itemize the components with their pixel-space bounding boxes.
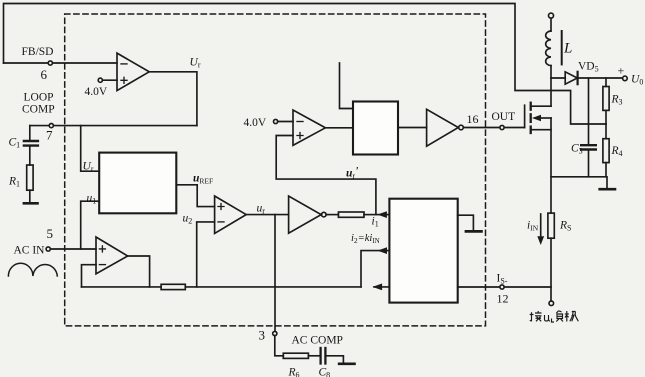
node pin 5 terminal <box>46 247 50 251</box>
svg-text:RS: RS <box>559 220 571 233</box>
wire pin3 vertical from ue line to AC COMP <box>274 215 276 332</box>
wire Is- pin 12 <box>458 286 551 288</box>
svg-text:+: + <box>618 64 625 78</box>
svg-text:R3: R3 <box>611 94 623 107</box>
dashed IC boundary box <box>65 14 486 326</box>
svg-text:L: L <box>563 41 572 57</box>
svg-text:AC IN: AC IN <box>14 245 46 257</box>
Q1 source stub <box>532 129 551 131</box>
glyph u with L subscript <box>545 315 551 321</box>
wire logic block to driver <box>398 127 427 129</box>
svg-text:OUT: OUT <box>492 111 516 123</box>
Q1 drain stub <box>532 105 551 107</box>
svg-text:AC COMP: AC COMP <box>292 335 343 347</box>
wire drain to switch node <box>550 78 552 106</box>
resistor R3 <box>605 78 607 87</box>
inductor L input terminal <box>549 13 554 18</box>
svg-text:16: 16 <box>467 112 479 126</box>
node 4.0V source of U4 <box>274 119 278 123</box>
AC input waveform symbol <box>8 263 57 276</box>
svg-text:ur: ur <box>257 203 266 216</box>
resistor R7 in series <box>338 212 364 217</box>
svg-text:12: 12 <box>497 292 509 306</box>
wire i2 input from bus corner <box>361 251 389 287</box>
current comparator block A2 <box>389 199 457 303</box>
wire output ground bus <box>551 177 607 188</box>
wire OUT pin 16 to gate <box>463 127 524 129</box>
wire Ur branch from pin7 rail into multiplier <box>81 126 100 172</box>
wire u1 branch from AC IN into multiplier <box>81 201 100 249</box>
svg-text:ur': ur' <box>346 166 358 181</box>
op-amp U5 AC input amplifier <box>96 237 128 274</box>
op-amp U1 FB/SD comparator <box>117 53 149 91</box>
svg-text:LOOP: LOOP <box>24 92 54 104</box>
wire pin 7 LOOP COMP rail <box>30 125 197 127</box>
resistor R4 <box>605 124 607 139</box>
wire U4 output to logic block <box>325 127 353 129</box>
node pin 16 terminal <box>500 125 504 129</box>
arrow i2 <box>377 247 387 254</box>
node pin 7 terminal <box>49 124 53 128</box>
resistor R6 <box>283 353 308 358</box>
driver inverter U6 <box>427 109 459 146</box>
svg-text:6: 6 <box>41 67 48 82</box>
node pin 3 terminal <box>273 331 277 335</box>
node output negative terminal <box>549 301 554 306</box>
wire uREF output of multiplier to error amp <box>176 185 214 207</box>
resistor R2 in bus <box>161 284 185 289</box>
resistor Rs <box>548 213 554 238</box>
wire ue output <box>246 214 288 216</box>
svg-text:3: 3 <box>259 328 266 343</box>
svg-text:COMP: COMP <box>22 104 55 116</box>
op-amp U2 error amplifier <box>215 196 247 233</box>
arrow i1 <box>377 211 387 218</box>
svg-text:4.0V: 4.0V <box>244 117 267 129</box>
glyph fu <box>556 311 563 322</box>
svg-text:u1: u1 <box>87 193 97 206</box>
wire AC IN pin 5 <box>50 248 96 250</box>
svg-text:uREF: uREF <box>193 173 213 186</box>
svg-text:VD5: VD5 <box>578 61 599 74</box>
arrow iIN current <box>540 214 542 238</box>
multiplier block A1 <box>99 153 176 214</box>
ground below R4 <box>600 188 615 191</box>
svg-text:iIN: iIN <box>527 220 539 233</box>
capacitor C3 branch <box>588 78 590 144</box>
svg-text:Ur: Ur <box>83 161 94 174</box>
wire U5 feedback minus input <box>82 265 97 287</box>
wire u2 input from bus <box>197 222 215 287</box>
wire clock stub into logic block <box>340 63 354 109</box>
svg-text:R1: R1 <box>8 176 20 189</box>
diode VD5 <box>551 77 565 79</box>
op-amp U4 comparator with 4.0V <box>293 110 325 145</box>
resistor R1 <box>27 165 33 190</box>
wire node i1 into current block with arrow <box>376 214 390 216</box>
node pin 6 terminal <box>48 61 52 65</box>
svg-text:i1: i1 <box>372 216 379 229</box>
svg-text:7: 7 <box>46 128 53 143</box>
wire inverter to resistor <box>326 214 338 216</box>
svg-text:U0: U0 <box>631 74 643 87</box>
wire top feedback loop from FB/SD to R3/R4 divider <box>4 4 607 125</box>
glyph ji <box>565 311 569 322</box>
Q1 body arrow <box>539 117 552 119</box>
inductor L winding <box>546 31 551 66</box>
inverter U3 <box>289 196 322 233</box>
inductor core bar <box>561 31 563 64</box>
capacitor C8 <box>319 348 321 364</box>
ground stub of current block <box>458 215 474 230</box>
node pin 12 terminal <box>500 285 504 289</box>
node U0 output terminal <box>623 76 628 81</box>
wire 4.0V to U1 plus input <box>102 79 117 81</box>
svg-text:FB/SD: FB/SD <box>22 46 54 58</box>
node 4.0V source of U1 <box>98 78 102 82</box>
wire ur' from comparator U4 plus input to node i1 <box>276 136 376 215</box>
svg-text:R6: R6 <box>288 367 300 377</box>
wire resistor to node i1 <box>364 214 376 216</box>
capacitor C1 <box>29 126 31 140</box>
ground below R1 <box>24 202 38 205</box>
wire U5 output down to bus <box>128 256 150 287</box>
wire 4.0V to U4 minus input <box>278 121 293 123</box>
glyph jie <box>530 312 534 321</box>
svg-text:C8: C8 <box>319 367 331 377</box>
svg-text:4.0V: 4.0V <box>85 86 108 98</box>
wire feedback bus <box>82 286 362 288</box>
wire source down through Rs to pin 12 line <box>550 118 552 301</box>
svg-text:IS-: IS- <box>497 273 508 286</box>
svg-text:R4: R4 <box>611 145 623 158</box>
ground after C8 <box>339 362 354 365</box>
wire FB/SD pin 6 input <box>4 62 118 64</box>
wire stub with arrow at bus level into block <box>374 286 389 288</box>
label connect to uL negative (Chinese, drawn as strokes) <box>530 311 579 322</box>
svg-text:Ur: Ur <box>190 57 201 70</box>
wire U1 output Ur to pin7 rail <box>149 72 197 126</box>
svg-text:5: 5 <box>47 226 54 241</box>
svg-text:u2: u2 <box>183 213 193 226</box>
svg-text:C1: C1 <box>9 137 21 150</box>
svg-text:i2=kiIN: i2=kiIN <box>351 233 380 245</box>
logic block A3 <box>353 102 398 155</box>
arrow stub <box>373 284 383 291</box>
transistor Q1 power MOSFET <box>524 105 526 127</box>
